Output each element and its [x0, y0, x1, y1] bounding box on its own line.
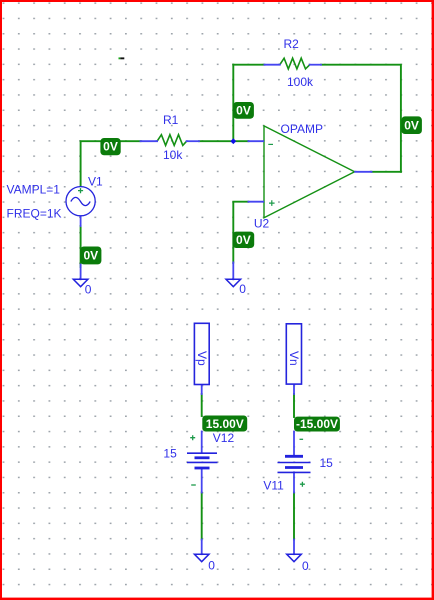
svg-text:V12: V12	[213, 431, 235, 445]
svg-text:U2: U2	[254, 217, 270, 231]
svg-text:Vp: Vp	[195, 351, 209, 366]
svg-text:0: 0	[208, 558, 215, 572]
svg-text:15: 15	[163, 447, 177, 461]
svg-text:Vn: Vn	[287, 351, 301, 366]
svg-text:0V: 0V	[103, 140, 118, 154]
svg-text:15: 15	[320, 456, 334, 470]
svg-text:0V: 0V	[236, 103, 251, 117]
svg-text:V11: V11	[263, 479, 284, 493]
svg-text:VAMPL=1: VAMPL=1	[7, 183, 61, 197]
svg-text:0: 0	[85, 282, 92, 296]
svg-text:0V: 0V	[236, 233, 251, 247]
svg-text:0V: 0V	[83, 248, 98, 262]
svg-text:0V: 0V	[404, 119, 419, 133]
svg-text:OPAMP: OPAMP	[281, 122, 323, 136]
svg-text:FREQ=1K: FREQ=1K	[7, 207, 62, 221]
svg-text:100k: 100k	[287, 75, 314, 89]
svg-text:10k: 10k	[163, 148, 183, 162]
svg-text:-15.00V: -15.00V	[296, 417, 338, 431]
svg-text:0: 0	[239, 282, 246, 296]
svg-text:15.00V: 15.00V	[206, 417, 244, 431]
svg-text:V1: V1	[88, 175, 103, 189]
svg-text:R2: R2	[284, 37, 300, 51]
svg-text:0: 0	[302, 559, 309, 573]
svg-text:R1: R1	[163, 113, 179, 127]
